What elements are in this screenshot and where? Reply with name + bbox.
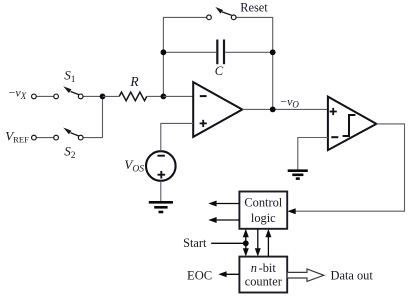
resistor R — [119, 92, 147, 101]
control logic left output arrow 1 — [208, 201, 239, 207]
switch S2 — [32, 128, 83, 140]
node R output — [161, 94, 167, 100]
svg-text:S2: S2 — [64, 144, 76, 162]
node start junction — [243, 240, 249, 246]
control logic left output arrow 2 — [208, 217, 239, 223]
comparator U2 — [328, 97, 377, 151]
switch S1 — [32, 86, 83, 99]
wire top feedback left segment — [163, 17, 206, 96]
wire comparator output to control logic — [290, 124, 405, 211]
svg-text:VOS: VOS — [124, 157, 144, 175]
svg-text:counter: counter — [245, 275, 283, 289]
svg-text:R: R — [129, 74, 139, 89]
svg-text:VREF: VREF — [5, 128, 29, 144]
wire VOS bottom to ground — [160, 181, 162, 202]
svg-text:EOC: EOC — [187, 269, 212, 283]
wire switch S1 to junction — [83, 95, 102, 97]
svg-text:−vO: −vO — [280, 94, 299, 109]
svg-text:Reset: Reset — [240, 0, 268, 14]
svg-text:logic: logic — [251, 211, 276, 225]
wire control to counter arrow — [255, 229, 261, 257]
svg-text:S1: S1 — [64, 68, 76, 86]
arrowhead into control logic — [287, 208, 295, 214]
node cap right — [270, 49, 276, 55]
data out open arrow — [287, 269, 324, 281]
n-bit counter box — [239, 257, 287, 293]
wire start line to control and counter with both arrowheads — [243, 229, 249, 257]
ground comparator — [288, 171, 308, 179]
svg-text:Data out: Data out — [331, 269, 374, 283]
svg-text:Control: Control — [244, 196, 282, 210]
node output -vO — [270, 107, 276, 113]
switch Reset — [207, 7, 236, 20]
wire capacitor branch right — [225, 51, 273, 53]
svg-text:Start: Start — [183, 236, 207, 250]
svg-text:−vX: −vX — [9, 86, 27, 101]
wire input VREF — [36, 137, 53, 139]
wire input vX — [36, 95, 53, 97]
wire start — [211, 242, 246, 244]
wire EOC arrow — [218, 271, 239, 277]
wire junction to resistor — [103, 95, 120, 97]
capacitor C — [217, 40, 224, 65]
svg-text:C: C — [215, 64, 224, 78]
wire node to op-amp inverting input — [163, 95, 193, 97]
wire resistor to node — [147, 95, 164, 97]
wire op-amp output — [242, 108, 328, 110]
wire capacitor branch left — [163, 51, 216, 53]
wire switch S2 to junction riser — [83, 96, 102, 137]
VOS source — [146, 151, 176, 181]
wire top feedback right segment — [236, 17, 273, 109]
node switch junction — [100, 94, 106, 100]
node cap left — [161, 49, 167, 55]
ground VOS — [149, 202, 173, 212]
wire VOS top to op-amp noninverting input — [161, 123, 193, 151]
svg-text:n -bit: n -bit — [251, 261, 277, 275]
op-amp U1 — [193, 82, 242, 137]
wire comparator inverting to ground — [298, 138, 328, 170]
control logic box — [239, 192, 287, 229]
wire counter to control arrow — [265, 229, 271, 257]
